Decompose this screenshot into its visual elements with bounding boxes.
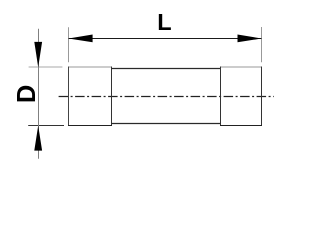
D dimension arrowhead bottom	[34, 126, 42, 151]
svg-text:D: D	[13, 85, 41, 103]
fuse right end cap	[220, 67, 262, 127]
D dimension extension line bottom	[28, 125, 64, 127]
L dimension extension line right	[261, 27, 263, 62]
fuse left end cap	[68, 67, 112, 127]
L dimension arrowhead left	[69, 35, 93, 43]
L dimension extension line left	[68, 27, 70, 62]
D dimension arrowhead top	[34, 42, 42, 67]
fuse body tube	[112, 69, 221, 124]
D dimension line	[38, 29, 40, 159]
svg-text:L: L	[157, 9, 171, 35]
D dimension extension line top	[29, 66, 63, 68]
centerline (dash-dot axis)	[59, 96, 274, 98]
L dimension arrowhead right	[238, 35, 262, 43]
L dimension line	[69, 38, 262, 40]
